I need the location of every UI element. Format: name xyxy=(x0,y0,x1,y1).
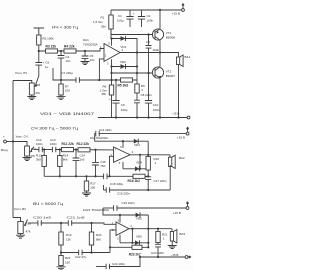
svg-text:100: 100 xyxy=(90,185,95,189)
svg-text:Вход: Вход xyxy=(1,148,8,152)
capacitor C18 100µ xyxy=(104,174,107,180)
svg-text:VD1: VD1 xyxy=(121,45,127,49)
svg-text:+: + xyxy=(3,134,5,138)
capacitor C5 10n xyxy=(84,51,86,56)
svg-text:2Вт: 2Вт xyxy=(102,92,108,96)
wire: VD1 row xyxy=(112,39,138,81)
wire: ch3 filter main xyxy=(28,222,38,224)
op-amp DA1 TDA2030A xyxy=(104,44,120,62)
capacitor C22 47µ xyxy=(79,250,82,256)
svg-text:−15 В: −15 В xyxy=(171,253,179,257)
diode VD4 xyxy=(135,166,139,171)
resistor R2 100k xyxy=(34,28,45,35)
svg-text:C9: C9 xyxy=(121,103,125,107)
svg-text:C24 100n: C24 100n xyxy=(112,262,125,266)
wire: DA3 output tap vertical xyxy=(131,229,133,243)
wire: -15V bottom rail ch1 xyxy=(98,117,189,119)
wire: +15V top rail xyxy=(111,9,183,11)
svg-text:4: 4 xyxy=(132,150,134,154)
wire: DA2 output tap vertical xyxy=(139,155,141,169)
svg-text:R20: R20 xyxy=(96,233,102,237)
capacitor C14 1n5 xyxy=(75,150,77,159)
terminal -15V ch3 xyxy=(185,256,188,259)
wire: C16 row xyxy=(104,189,107,191)
svg-text:C20 1н5: C20 1н5 xyxy=(33,216,52,220)
svg-text:+ C6: + C6 xyxy=(43,61,50,65)
wire: VD4 row xyxy=(123,168,148,170)
svg-text:13k: 13k xyxy=(66,238,71,242)
svg-text:R19: R19 xyxy=(66,233,72,237)
wire: DA3 pin5 xyxy=(119,215,121,223)
resistor R4 22k xyxy=(64,49,76,53)
wire: bus to pot R18 xyxy=(13,218,21,222)
svg-text:ВЧ > 5000 Гц: ВЧ > 5000 Гц xyxy=(33,202,63,206)
terminal +15V ch3 xyxy=(186,207,189,210)
ground for pot R18 xyxy=(20,234,22,236)
svg-text:3: 3 xyxy=(119,161,121,165)
diode VD2 xyxy=(121,64,126,69)
svg-text:10n: 10n xyxy=(90,58,95,62)
capacitor C13 100n xyxy=(52,147,55,153)
svg-text:100µ: 100µ xyxy=(121,108,128,112)
wire: DA1 pin3 down xyxy=(111,59,113,80)
wire: DA2 top rail xyxy=(95,140,149,143)
svg-text:1: 1 xyxy=(155,161,157,165)
diode VD6 xyxy=(135,240,139,245)
svg-text:750: 750 xyxy=(100,164,105,168)
svg-text:100µ: 100µ xyxy=(117,18,124,22)
svg-text:+15 В: +15 В xyxy=(172,11,180,15)
svg-text:C16 220n: C16 220n xyxy=(117,192,130,196)
svg-text:1n5: 1n5 xyxy=(80,158,85,162)
resistor R12 22k xyxy=(78,148,90,152)
svg-text:R8: R8 xyxy=(36,83,40,87)
op-amp DA2 TDA2030A xyxy=(114,147,131,162)
svg-text:C8 220n: C8 220n xyxy=(141,93,153,97)
resistor R14 8k6 xyxy=(59,150,61,156)
svg-text:Усил. ВЧ: Усил. ВЧ xyxy=(14,207,26,211)
wire: -15V bottom rail ch3 xyxy=(140,256,185,258)
svg-text:R18: R18 xyxy=(26,222,32,226)
svg-text:VD1 − VD8 1N4007: VD1 − VD8 1N4007 xyxy=(40,112,94,116)
capacitor C9 100µ xyxy=(115,80,117,101)
terminal +15V ch2 xyxy=(186,132,189,135)
svg-text:TDA2030A: TDA2030A xyxy=(83,42,98,46)
svg-text:3: 3 xyxy=(107,62,109,66)
svg-text:VD6: VD6 xyxy=(136,235,142,239)
wire: DA3 output vertical xyxy=(147,215,149,247)
diode VD1 xyxy=(121,36,126,41)
svg-text:C17 220n: C17 220n xyxy=(154,179,167,183)
ground for R17 xyxy=(86,191,88,193)
wire: ch1 feedback rail xyxy=(53,68,76,80)
wire: DA2 pin5 xyxy=(122,141,124,148)
capacitor C4 10n xyxy=(60,51,62,56)
capacitor C12 100n xyxy=(39,147,42,153)
svg-text:100: 100 xyxy=(65,89,70,93)
wire: DA3 pin3 xyxy=(119,235,121,243)
svg-text:C18 100µ: C18 100µ xyxy=(110,182,123,186)
wire: DA1 output xyxy=(120,53,179,58)
potentiometer R18 47k xyxy=(18,222,23,234)
svg-text:1: 1 xyxy=(141,88,143,92)
svg-text:100n: 100n xyxy=(153,108,160,112)
wire: BA1 return xyxy=(178,65,180,118)
diode VD5 xyxy=(136,213,140,218)
wire: ch2 filter main xyxy=(34,149,39,151)
resistor R1 1.5 Ohm 2W xyxy=(110,10,112,15)
svg-text:DA2 TDA2030A: DA2 TDA2030A xyxy=(90,136,108,140)
svg-text:R16 2k2: R16 2k2 xyxy=(128,179,141,183)
wire: C19 +15 feed row xyxy=(103,207,114,209)
capacitor C6 coupling xyxy=(38,51,40,63)
svg-text:100n: 100n xyxy=(153,48,160,52)
svg-text:8k6: 8k6 xyxy=(63,158,68,162)
wire: DA2 output vertical xyxy=(147,141,149,156)
svg-text:R23 2k2: R23 2k2 xyxy=(129,252,141,256)
wire: DA3 pin2 lead xyxy=(110,230,116,253)
svg-text:DA1: DA1 xyxy=(83,38,89,42)
ground for R7 xyxy=(60,95,62,97)
wire: R23 feedback row xyxy=(110,246,148,248)
svg-text:47k: 47k xyxy=(26,230,31,234)
ground for pot R8 xyxy=(31,95,33,97)
svg-text:10n: 10n xyxy=(66,59,71,63)
svg-text:R4 22k: R4 22k xyxy=(64,44,75,48)
potentiometer R10 47k xyxy=(25,146,30,156)
capacitor C3 100n xyxy=(148,35,150,46)
resistor R3 22k xyxy=(46,49,58,53)
resistor R9 1 Zobel xyxy=(136,80,138,84)
ground for R22 xyxy=(60,266,62,267)
capacitor C15 750 xyxy=(95,150,97,163)
svg-text:C10: C10 xyxy=(153,103,159,107)
svg-text:4: 4 xyxy=(130,224,132,228)
wire: DA1 pin5 to +supply xyxy=(111,39,113,46)
svg-text:−15 В: −15 В xyxy=(172,111,180,115)
svg-text:5: 5 xyxy=(120,145,122,149)
svg-text:R12 22k: R12 22k xyxy=(77,142,90,146)
ground for pot R10 xyxy=(26,156,28,158)
svg-text:R1: R1 xyxy=(101,16,105,20)
wire: VT1 emitter to rail xyxy=(159,10,161,29)
svg-text:СЧ 300 Гц − 5000 Гц: СЧ 300 Гц − 5000 Гц xyxy=(31,126,78,130)
resistor R13 3k0 xyxy=(43,150,45,156)
svg-text:Усил. НЧ: Усил. НЧ xyxy=(15,71,27,75)
resistor R16 2k2 feedback xyxy=(133,174,145,178)
svg-text:150: 150 xyxy=(65,260,70,264)
wire: ch1 filter main xyxy=(39,49,104,52)
resistor R7 100 xyxy=(60,80,62,84)
resistor R19 13k xyxy=(60,223,62,232)
svg-text:3: 3 xyxy=(117,236,119,240)
resistor R21 1 Zobel ch3 xyxy=(157,229,159,232)
svg-text:VD2: VD2 xyxy=(120,60,126,64)
capacitor C23 220n xyxy=(157,243,159,245)
wire: ch1 input from bus to volume pot xyxy=(13,81,32,84)
capacitor C11 220n on +15 feed xyxy=(95,134,96,141)
resistor R20 8k6 xyxy=(91,223,93,232)
wire: DA2 pin3 xyxy=(122,162,124,169)
svg-text:+: + xyxy=(133,11,135,15)
resistor R23 2k2 xyxy=(132,245,142,249)
svg-text:R2 100k: R2 100k xyxy=(43,37,55,41)
svg-text:+: + xyxy=(109,97,111,101)
resistor R17 100 xyxy=(86,176,88,181)
capacitor C7 220µ xyxy=(76,77,79,83)
node: input bus wire xyxy=(12,81,14,218)
wire: ch2 feedback rail xyxy=(44,175,103,177)
capacitor C17 220n xyxy=(147,170,149,177)
terminal -15V ch1 xyxy=(187,116,190,119)
resistor R15 1 Zobel ch2 xyxy=(146,157,150,171)
op-amp DA3 TDA2030A xyxy=(116,222,129,236)
wire: ch2 to pot xyxy=(13,142,27,147)
wire: VT2 emitter to -rail xyxy=(159,78,161,117)
capacitor C19 100n xyxy=(114,205,117,211)
resistor R5 3k3 feedback xyxy=(121,78,133,82)
speaker BA1 xyxy=(177,57,180,65)
ground for BA3 xyxy=(171,241,173,246)
resistor R22 150 xyxy=(60,251,62,253)
svg-text:VD4: VD4 xyxy=(136,161,142,165)
svg-text:C7 220µ: C7 220µ xyxy=(62,71,73,75)
potentiometer R8 47k volume xyxy=(29,83,34,95)
capacitor C20 1n5 xyxy=(38,220,41,226)
capacitor C10 100n xyxy=(148,73,150,101)
terminal +15V top xyxy=(182,9,185,12)
wire: VT2 collector to output xyxy=(159,53,161,67)
svg-text:BA1: BA1 xyxy=(185,55,191,59)
svg-text:BD908: BD908 xyxy=(166,35,176,39)
wire: DA3 output xyxy=(129,228,172,230)
svg-text:R5 3k3: R5 3k3 xyxy=(118,83,129,87)
wire: input to bus xyxy=(6,141,13,143)
resistor R11 22k xyxy=(62,148,74,152)
wire: VD6 row xyxy=(120,242,148,244)
wire: DA1 pin2 lead xyxy=(99,59,104,80)
transistor VT1 BD908 xyxy=(152,29,163,40)
wire: ch3 shunt bottoms row xyxy=(61,245,79,253)
svg-text:+15 В: +15 В xyxy=(173,211,181,215)
wire: VT1 collector to output xyxy=(159,40,161,52)
wire: mid rail to VT2 base xyxy=(112,72,153,74)
svg-text:47k: 47k xyxy=(35,91,40,95)
capacitor C24 100n xyxy=(106,264,109,270)
wire: R20 bottom xyxy=(91,245,93,253)
capacitor C21 1n5 xyxy=(68,220,71,226)
svg-text:3k0: 3k0 xyxy=(36,158,41,162)
wire: VD2 row xyxy=(112,66,138,68)
wire: DA2 output xyxy=(130,154,170,156)
svg-text:VD3: VD3 xyxy=(134,143,140,147)
svg-text:BD907: BD907 xyxy=(166,74,176,78)
wire: BA2 return xyxy=(169,165,171,190)
resistor R6 1 Ohm xyxy=(111,80,113,85)
svg-text:100n: 100n xyxy=(147,18,154,22)
capacitor C8 220n xyxy=(136,93,138,100)
svg-text:НЧ < 300 Гц: НЧ < 300 Гц xyxy=(52,26,78,30)
svg-text:100n: 100n xyxy=(36,142,43,146)
capacitor C2 100n xyxy=(141,10,143,17)
svg-text:+15 В: +15 В xyxy=(177,135,185,139)
svg-text:8k6: 8k6 xyxy=(96,238,101,242)
capacitor C1 100µ xyxy=(129,10,131,17)
speaker BA3 xyxy=(171,229,173,232)
transistor VT2 BD907 xyxy=(152,67,163,78)
svg-text:100n: 100n xyxy=(50,142,57,146)
svg-text:5: 5 xyxy=(108,42,110,46)
svg-text:2Вт: 2Вт xyxy=(101,25,107,29)
svg-text:C23 220n: C23 220n xyxy=(151,251,164,255)
svg-text:C22 47µ: C22 47µ xyxy=(75,255,87,259)
wire: DA3 top rail xyxy=(103,208,148,215)
svg-text:5: 5 xyxy=(118,218,120,222)
svg-text:R3 22k: R3 22k xyxy=(46,44,57,48)
svg-text:Усил. СЧ: Усил. СЧ xyxy=(16,135,28,139)
capacitor C16 220n xyxy=(106,187,109,193)
svg-text:BA2: BA2 xyxy=(179,156,185,160)
wire: DA2 pin2 lead xyxy=(110,156,114,176)
svg-text:C21 1н5: C21 1н5 xyxy=(67,216,86,220)
svg-text:R11 22k: R11 22k xyxy=(62,142,74,146)
svg-text:VD5: VD5 xyxy=(136,217,142,221)
svg-text:R10: R10 xyxy=(31,147,37,151)
svg-text:BA3: BA3 xyxy=(179,232,185,236)
svg-text:C19 100n: C19 100n xyxy=(122,201,135,205)
ground for C5 xyxy=(81,62,90,65)
svg-text:1µ: 1µ xyxy=(45,65,49,69)
svg-text:1: 1 xyxy=(163,237,165,241)
svg-text:C3: C3 xyxy=(146,40,150,44)
wire: C24 row xyxy=(96,266,106,268)
svg-text:C11 220n: C11 220n xyxy=(99,128,112,132)
speaker BA2 xyxy=(169,155,171,158)
diode VD3 xyxy=(134,139,138,144)
